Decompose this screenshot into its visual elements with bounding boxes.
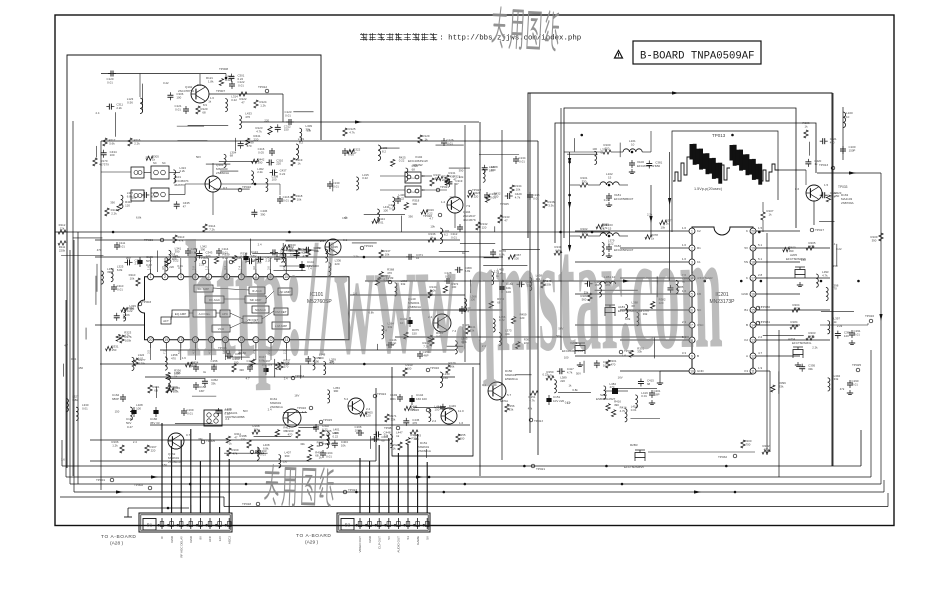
- svg-text:390: 390: [285, 454, 290, 458]
- test point TP005: [201, 440, 205, 444]
- svg-text:16: 16: [751, 292, 755, 296]
- svg-text:20: 20: [751, 229, 755, 233]
- capacitor C437: [270, 172, 273, 174]
- wire: [574, 138, 576, 151]
- capacitor C311: [106, 106, 109, 108]
- wire: [85, 328, 87, 340]
- flow arrow: [151, 475, 158, 478]
- capacitor C131: [397, 196, 399, 199]
- resistor R362: [516, 342, 520, 349]
- svg-text:AFT: AFT: [163, 319, 169, 323]
- svg-text:0.22: 0.22: [163, 81, 169, 85]
- test point TP024: [373, 394, 377, 398]
- test point TP09: [388, 280, 392, 284]
- wire: [90, 439, 390, 441]
- capacitor C453: [247, 260, 250, 262]
- ceramic filter X201: [575, 346, 585, 351]
- wire: [96, 264, 98, 292]
- svg-text:GND: GND: [170, 535, 174, 543]
- capacitor C110: [113, 284, 115, 287]
- watermark url qmstar: [183, 197, 723, 392]
- svg-text:5.2: 5.2: [344, 397, 349, 401]
- svg-text:10k: 10k: [516, 187, 521, 191]
- capacitor C381: [648, 160, 650, 163]
- resistor R414: [611, 410, 615, 417]
- resistor R120: [196, 106, 200, 114]
- wire pin stub: [194, 348, 196, 360]
- svg-text:5.1: 5.1: [832, 242, 836, 246]
- wire: [763, 335, 804, 337]
- capacitor C124: [344, 148, 346, 151]
- wire: [832, 93, 834, 466]
- resistor R130: [430, 178, 434, 186]
- wire pin stub: [255, 348, 257, 360]
- resistor R442: [251, 159, 258, 163]
- test point TP020: [438, 213, 442, 217]
- wire: [575, 355, 689, 357]
- capacitor C457: [517, 283, 520, 285]
- section box top-right inner: [555, 123, 816, 243]
- svg-text:TP021: TP021: [440, 185, 449, 189]
- inductor L315: [356, 177, 358, 190]
- capacitor C123: [286, 121, 289, 123]
- wire: [61, 440, 63, 466]
- flow arrow: [672, 91, 679, 94]
- capacitor C156: [213, 364, 215, 367]
- capacitor C301: [230, 74, 232, 77]
- test point TP006: [160, 238, 164, 242]
- svg-text:0.0: 0.0: [197, 83, 201, 87]
- wire: [364, 213, 405, 215]
- svg-text:IF: IF: [160, 536, 164, 539]
- capacitor C122: [231, 81, 233, 84]
- svg-text:0.01: 0.01: [285, 113, 291, 117]
- wire: [274, 359, 276, 378]
- wire: [70, 483, 881, 485]
- capacitor C434: [103, 150, 105, 153]
- svg-text:TP013: TP013: [712, 133, 726, 138]
- capacitor C406: [371, 438, 374, 440]
- resistor R203: [806, 336, 814, 340]
- inductor L407: [279, 455, 281, 468]
- inductor L458: [530, 277, 532, 290]
- wire: [836, 244, 838, 266]
- test point TP023: [343, 490, 347, 494]
- capacitor C157: [195, 364, 197, 367]
- capacitor C440: [141, 194, 144, 196]
- wire: [502, 249, 540, 251]
- inductor L327: [66, 399, 68, 412]
- svg-text:150: 150: [282, 459, 287, 463]
- svg-text:6.8k: 6.8k: [572, 388, 578, 392]
- wire: [254, 435, 292, 437]
- resistor R459: [511, 317, 515, 324]
- resistor R167: [145, 445, 149, 453]
- wire: [206, 163, 231, 165]
- wire pin stub: [270, 348, 272, 360]
- capacitor C429: [505, 195, 508, 197]
- capacitor C166: [356, 432, 359, 434]
- wire: [242, 121, 479, 123]
- resistor R144: [428, 290, 432, 298]
- svg-text:0.22: 0.22: [399, 159, 405, 163]
- svg-text:0.01: 0.01: [333, 184, 339, 188]
- IC101 internal block APC: [220, 310, 230, 317]
- svg-text:K2: K2: [744, 338, 748, 342]
- resistor R165b: [320, 430, 324, 438]
- resistor R123: [268, 127, 272, 135]
- resistor R380: [596, 224, 603, 228]
- svg-text:20: 20: [149, 338, 153, 342]
- svg-text:0.01: 0.01: [82, 406, 88, 410]
- test point TP011: [226, 350, 230, 354]
- waveform tail right: [760, 164, 779, 181]
- resistor R303: [219, 79, 223, 86]
- resistor R131: [445, 175, 449, 183]
- capacitor C371: [406, 256, 409, 258]
- resistor R16B: [247, 440, 251, 448]
- svg-text:100P: 100P: [355, 428, 362, 432]
- wire junction: [363, 363, 366, 366]
- wire junction: [189, 483, 192, 486]
- capacitor C191: [851, 330, 853, 333]
- wire: [60, 496, 224, 498]
- svg-text:TP012: TP012: [258, 85, 267, 89]
- wire: [177, 125, 204, 127]
- ceramic filter X181 with coil L102 and resistor R101: [600, 182, 619, 185]
- resistor R374: [489, 301, 493, 308]
- wire: [479, 154, 519, 156]
- svg-text:100: 100: [110, 153, 115, 157]
- wire junction: [591, 231, 594, 234]
- resistor R317: [436, 176, 443, 180]
- resistor R356: [166, 372, 170, 379]
- svg-text:100: 100: [272, 178, 277, 182]
- capacitor C452: [296, 251, 298, 254]
- wire junction: [559, 231, 562, 234]
- wire junction: [464, 483, 467, 486]
- inductor L393: [816, 274, 818, 287]
- svg-text:2.2k: 2.2k: [134, 141, 140, 145]
- resistor R375: [404, 332, 408, 339]
- inductor L335: [325, 249, 327, 262]
- wire: [401, 216, 403, 232]
- svg-text:5.1: 5.1: [758, 243, 763, 247]
- coil L1B1: [600, 281, 616, 284]
- svg-text:2.4: 2.4: [268, 407, 272, 411]
- wire: [575, 324, 689, 326]
- gnd: [797, 362, 799, 365]
- SAW filter X102: [405, 172, 421, 183]
- svg-text:4.7k: 4.7k: [822, 273, 828, 277]
- wire junction: [758, 231, 761, 234]
- svg-text:150: 150: [435, 408, 440, 412]
- wire: [620, 339, 689, 341]
- capacitor C420: [807, 159, 809, 162]
- svg-text:100: 100: [460, 436, 465, 440]
- svg-text:6.8k: 6.8k: [136, 215, 142, 219]
- inductor L433: [239, 116, 241, 129]
- flow arrow: [416, 475, 423, 478]
- inductor L365: [455, 341, 457, 354]
- wire: [778, 330, 780, 477]
- svg-text:0.01: 0.01: [138, 357, 144, 361]
- svg-text:0.01: 0.01: [326, 454, 332, 458]
- resistor R416: [606, 404, 610, 411]
- svg-text:K: K: [746, 229, 748, 233]
- svg-text:4626TK: 4626TK: [174, 183, 185, 187]
- flow arrow: [849, 171, 856, 174]
- resistor R349: [167, 388, 174, 392]
- svg-text:5V: 5V: [425, 536, 429, 540]
- resistor R382: [650, 301, 654, 308]
- svg-text:150: 150: [78, 366, 83, 370]
- svg-text:1.5: 1.5: [758, 226, 763, 230]
- wire: [223, 497, 225, 507]
- svg-text:150: 150: [833, 264, 838, 268]
- flow arrow: [355, 120, 362, 123]
- svg-text:EFCT6RSM3L: EFCT6RSM3L: [792, 341, 812, 345]
- svg-text:150: 150: [115, 410, 120, 414]
- inductor L447: [390, 435, 392, 448]
- svg-text:11.0: 11.0: [458, 409, 464, 413]
- gnd: [799, 282, 801, 285]
- wire pin stub: [180, 258, 182, 269]
- resistor R322: [347, 149, 354, 153]
- wire pin stub: [150, 258, 152, 269]
- wire pin stub: [208, 258, 210, 269]
- capacitor C436: [253, 209, 255, 212]
- wire: [61, 255, 103, 257]
- wire: [74, 491, 884, 493]
- resistor R119: [291, 158, 295, 166]
- resistor R316: [421, 210, 428, 214]
- wire pin stub: [224, 348, 226, 360]
- svg-text:WP: WP: [126, 256, 131, 260]
- ceramic filter A183: [605, 308, 615, 313]
- wire: [529, 93, 531, 433]
- wire: [365, 280, 692, 282]
- wire: [654, 338, 656, 359]
- wire: [350, 294, 465, 296]
- transformer L106 TLA6A01: [204, 410, 222, 426]
- wire: [212, 192, 214, 215]
- wire: [375, 388, 377, 461]
- svg-text:4.7k: 4.7k: [529, 398, 535, 402]
- flow arrow: [568, 158, 571, 165]
- wire: [669, 152, 671, 281]
- capacitor C154: [419, 351, 421, 354]
- wire: [101, 73, 226, 75]
- wire: [62, 465, 861, 467]
- transistor Q104 (4SC367K): [447, 197, 463, 213]
- resistor R339: [214, 257, 218, 264]
- svg-text:470: 470: [810, 244, 815, 248]
- test point TP08: [396, 426, 400, 430]
- svg-text:1k: 1k: [814, 162, 818, 166]
- wire: [756, 261, 800, 263]
- header forum title text: [360, 34, 368, 36]
- svg-text:TP008: TP008: [219, 67, 228, 71]
- svg-text:MP0A: MP0A: [500, 399, 508, 403]
- inductor L409: [326, 435, 328, 448]
- wire: [483, 265, 527, 267]
- svg-text:0.01: 0.01: [107, 80, 113, 84]
- wire GND stub: [660, 370, 689, 372]
- svg-text:0.22: 0.22: [146, 263, 152, 267]
- wire: [395, 336, 689, 338]
- svg-text:0.01: 0.01: [71, 357, 77, 361]
- ceramic filter R2B3: [635, 453, 645, 458]
- capacitor C343: [198, 251, 200, 254]
- wire: [180, 440, 182, 513]
- svg-text:470: 470: [288, 432, 293, 436]
- svg-text:19: 19: [751, 246, 755, 250]
- svg-text:10k: 10k: [459, 175, 464, 179]
- connector B1 TO A-BOARD (A28): [139, 513, 232, 532]
- svg-text:B1: B1: [744, 308, 748, 312]
- wire: [766, 233, 768, 455]
- wire: [235, 138, 237, 151]
- resistor R140: [296, 248, 300, 256]
- svg-text:10k: 10k: [254, 427, 259, 431]
- transistor Q161 2SD601A: [283, 409, 301, 427]
- wire: [860, 430, 862, 466]
- svg-text:150: 150: [801, 258, 806, 262]
- svg-text:0.56: 0.56: [127, 100, 133, 104]
- inductor L324: [132, 357, 134, 370]
- capacitor C351: [225, 355, 228, 357]
- test point TP018: [256, 502, 260, 506]
- wire: [332, 179, 334, 191]
- svg-text:120: 120: [125, 203, 130, 207]
- svg-text:TP033: TP033: [838, 185, 848, 189]
- wire pin stub: [269, 258, 271, 269]
- svg-text:TO A-BOARD: TO A-BOARD: [101, 534, 137, 540]
- wire: [66, 476, 871, 478]
- svg-text:120: 120: [473, 195, 478, 199]
- wire: [381, 147, 400, 149]
- svg-text:S1: S1: [406, 536, 410, 540]
- resistor R331: [106, 346, 113, 350]
- wire: [501, 130, 503, 460]
- svg-text:150: 150: [655, 164, 660, 168]
- resistor R133: [498, 215, 502, 223]
- capacitor C164: [322, 450, 324, 453]
- capacitor C417: [557, 370, 560, 372]
- wire: [595, 289, 638, 291]
- capacitor C113: [245, 253, 247, 256]
- resistor R377: [660, 220, 667, 224]
- wire: [883, 480, 885, 492]
- waveform mid pulses: [718, 165, 730, 180]
- IC101 internal block L.M AMP: [272, 322, 290, 329]
- svg-text:220: 220: [151, 448, 156, 452]
- resistor R114: [203, 224, 207, 232]
- wire: [564, 151, 570, 153]
- wire: [95, 276, 97, 305]
- svg-text:4.7k: 4.7k: [124, 334, 130, 338]
- svg-text:10k: 10k: [132, 196, 137, 200]
- resistor R405: [360, 412, 367, 416]
- resistor R138: [554, 251, 562, 255]
- capacitor C402: [315, 424, 317, 427]
- svg-text:4.7k: 4.7k: [620, 409, 626, 413]
- svg-text:0.7: 0.7: [186, 433, 191, 437]
- inductor L341: [169, 250, 171, 263]
- svg-text:TP016: TP016: [865, 314, 874, 318]
- capacitor C163: [257, 448, 259, 451]
- svg-text:17: 17: [751, 276, 755, 280]
- test point TP025b: [856, 368, 860, 372]
- wire: [756, 339, 830, 341]
- ceramic filter X100 with coil L101 and resistor R100: [623, 149, 642, 152]
- svg-text:390: 390: [257, 161, 262, 165]
- resistor R446: [404, 406, 411, 410]
- svg-text:GND: GND: [368, 535, 372, 543]
- wire: [69, 250, 71, 484]
- wire: [55, 231, 610, 233]
- test point TP019: [360, 246, 364, 250]
- wire: [449, 167, 470, 169]
- resistor R112: [58, 230, 66, 234]
- wire: [479, 122, 481, 476]
- capacitor C333: [124, 261, 127, 263]
- wire: [157, 250, 159, 272]
- wire: [352, 242, 377, 244]
- wire: [213, 288, 249, 290]
- capacitor C396: [837, 331, 839, 334]
- svg-text:220: 220: [169, 265, 174, 269]
- wire: [155, 387, 157, 398]
- svg-text:0.22: 0.22: [399, 196, 405, 200]
- svg-text:100: 100: [792, 323, 797, 327]
- resistor R411: [226, 436, 230, 443]
- capacitor C151: [548, 395, 550, 398]
- inductor L360: [395, 283, 397, 296]
- capacitor C126: [443, 138, 445, 141]
- capacitor C306: [169, 92, 171, 95]
- svg-text:6B: 6B: [154, 388, 158, 392]
- svg-text:390: 390: [449, 195, 454, 199]
- waveform sub-box: [672, 131, 778, 232]
- resistor R163: [232, 364, 236, 372]
- capacitor C167: [265, 365, 267, 368]
- resistor R413: [275, 430, 279, 437]
- svg-text:K3: K3: [744, 369, 748, 373]
- svg-text:680P: 680P: [112, 397, 119, 401]
- svg-text:qmstar.com: qmstar.com: [465, 197, 723, 387]
- svg-text:2.4: 2.4: [133, 440, 137, 444]
- svg-text:(A28 ): (A28 ): [110, 541, 123, 547]
- svg-text:0.05: 0.05: [258, 150, 264, 154]
- svg-text:NC: NC: [162, 161, 166, 165]
- svg-text:: http://bbs.zjjws.com/index.p: : http://bbs.zjjws.com/index.php: [439, 35, 581, 43]
- svg-text:IN: IN: [422, 189, 425, 192]
- wire: [656, 276, 658, 297]
- svg-text:1k: 1k: [152, 158, 156, 162]
- ceramic filter A205: [795, 270, 805, 275]
- wire: [95, 239, 460, 241]
- wire: [65, 300, 67, 477]
- svg-text:150: 150: [494, 195, 499, 199]
- svg-text:TP010: TP010: [242, 185, 251, 189]
- wire: [252, 252, 297, 254]
- wire: [460, 242, 495, 244]
- wire: [464, 125, 466, 362]
- svg-text:VIDEO OUT: VIDEO OUT: [358, 536, 362, 553]
- border frame: [55, 15, 894, 526]
